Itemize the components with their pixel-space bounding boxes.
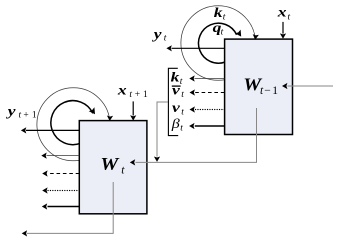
svg-text:t: t [288,12,291,22]
left-arrow 2 (dashed) from W_t box [48,173,80,175]
inner loop arrowhead (right box) [235,30,241,37]
svg-text:+: + [135,90,140,100]
svg-text:t: t [223,12,226,22]
left-arrow 1 (thin solid, k_t) from W_{t-1} box [195,78,225,80]
wire y_{t+1} output line [26,129,79,131]
svg-text:+: + [23,111,28,121]
bracket [ [168,68,178,135]
svg-text:1: 1 [272,85,278,97]
wire input from previous step into W_{t-1} [288,85,334,87]
svg-text:x: x [117,83,127,98]
left-arrow 3 (dotted, v_t) from W_{t-1} box [195,109,225,111]
arrowhead bracket wire (down) [154,157,160,162]
inner loop arrowhead (left box) [89,107,95,114]
arrowhead x_{t+1} into box top [130,115,136,120]
outer self-loop circle (left box) [37,88,110,161]
arrowhead y_t [166,45,171,51]
outer loop arrowhead (into top of W_{t-1} box) [253,34,259,40]
svg-text:k: k [214,5,223,20]
inner self-loop circle (right box, q_t loop) [198,23,236,63]
svg-text:t: t [129,90,132,100]
wire x_{t+1} input line [132,101,134,115]
svg-text:y: y [5,104,16,119]
svg-text:t: t [181,90,184,100]
inner self-loop circle (left box) [51,101,93,145]
svg-text:t: t [181,108,184,118]
svg-text:t: t [221,28,224,38]
wire y_t output line [172,47,225,49]
outer loop arrowhead (into top of W_t box) [107,116,113,122]
arrowhead x_t into box top [280,33,286,38]
svg-text:x: x [277,5,287,20]
wire W_{t-1} tail and recurrence into W_t [136,108,257,162]
svg-text:t: t [180,124,183,134]
arrowhead W_t tail [22,230,27,236]
box W_{t-1} [225,39,293,134]
arrowhead into W_{t-1} label [282,83,287,89]
wire x_t input line [282,22,284,34]
svg-text:W: W [100,155,119,174]
arrowhead y_{t+1} [21,127,26,133]
left-arrow 4 (solid thick, beta_t) from W_{t-1} box [195,125,225,127]
outer self-loop circle (right box, k_t loop) [181,6,256,81]
wire W_t tail (to next step, bottom left) [27,182,113,233]
svg-text:β: β [171,117,181,132]
svg-text:1: 1 [32,111,37,121]
svg-text:y: y [152,27,163,42]
left-arrow 4 (solid thick) from W_t box [48,206,80,208]
left-arrow 3 (dotted) from W_t box [48,190,80,192]
left-arrow 1 (thin solid) from W_t box [47,155,80,157]
svg-text:−: − [264,85,271,97]
svg-text:1: 1 [143,90,148,100]
svg-text:t: t [164,34,167,44]
svg-text:v: v [172,101,181,116]
arrowhead into W_t label [130,159,135,165]
box W_t [79,121,147,214]
wire bracket to update line [157,102,168,157]
left-arrow 2 (dashed, vbar_t) from W_{t-1} box [195,92,225,94]
svg-text:t: t [19,111,22,121]
